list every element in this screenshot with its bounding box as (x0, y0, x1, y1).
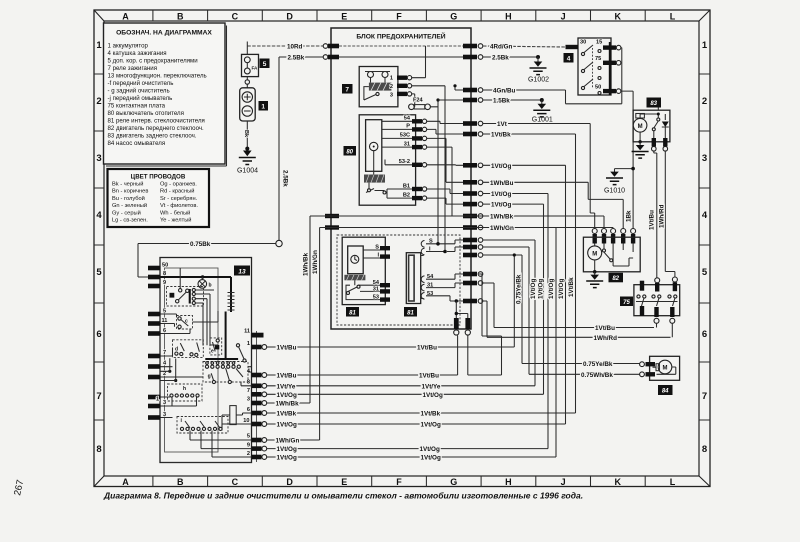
interior: contact near pin1 (239, 347, 244, 359)
connector drop pins below 81 (455, 299, 458, 302)
svg-text:-f передний очиститель: -f передний очиститель (108, 80, 174, 87)
svg-text:B: B (177, 477, 184, 487)
svg-text:54: 54 (373, 280, 380, 286)
svg-text:7: 7 (96, 391, 101, 402)
svg-text:E: E (341, 12, 347, 22)
svg-text:81 реле интерв. стеклоочистите: 81 реле интерв. стеклоочистителя (108, 118, 205, 125)
svg-text:J: J (561, 12, 566, 22)
svg-text:5: 5 (247, 434, 250, 440)
svg-text:1Vt/Bk: 1Vt/Bk (421, 411, 441, 418)
svg-text:4: 4 (96, 210, 102, 221)
wire 1Vt/Bk pin6 (267, 412, 576, 414)
svg-text:1Bk: 1Bk (626, 210, 633, 222)
svg-text:Lg - св-зелен.: Lg - св-зелен. (112, 218, 148, 224)
legend box (104, 23, 227, 166)
svg-text:Bk - черный: Bk - черный (112, 180, 143, 187)
svg-text:1Vt/Bu: 1Vt/Bu (277, 373, 297, 380)
svg-text:F: F (396, 477, 402, 487)
svg-text:1Vt/Og: 1Vt/Og (277, 392, 297, 399)
svg-text:Gy - серый: Gy - серый (112, 209, 141, 216)
svg-text:1.5Bk: 1.5Bk (493, 97, 510, 104)
svg-text:1Vt/Og: 1Vt/Og (491, 202, 511, 209)
svg-text:1Vt/Bu: 1Vt/Bu (595, 325, 615, 332)
relay 7 (359, 67, 398, 107)
ignition switch 4 (564, 38, 634, 229)
svg-text:c: c (185, 319, 188, 325)
svg-text:4Gn/Bu: 4Gn/Bu (493, 87, 516, 94)
column letters bottom (122, 477, 676, 487)
ground G1010 (604, 167, 635, 222)
interior: feed bus (161, 277, 232, 312)
83 bottom pins (652, 138, 656, 147)
frame column ticks bottom (153, 476, 645, 487)
svg-text:3: 3 (96, 153, 101, 164)
wire 1Vt/Og pin9 (267, 448, 548, 450)
svg-text:A: A (122, 477, 129, 487)
svg-text:1Vt/Bu: 1Vt/Bu (649, 210, 656, 230)
svg-text:1Vt/Og: 1Vt/Og (423, 392, 443, 399)
svg-text:3: 3 (163, 400, 166, 406)
svg-text:82: 82 (612, 276, 619, 282)
svg-text:1Wh/Bu: 1Wh/Bu (490, 180, 514, 187)
svg-text:1: 1 (247, 341, 250, 347)
socket pin wires to right edge (426, 240, 463, 244)
svg-text:9: 9 (247, 443, 250, 449)
washer pump 84 (581, 356, 680, 395)
wire 1Vt/Og pin2 (267, 228, 556, 458)
svg-text:1Vt/Og: 1Vt/Og (530, 279, 537, 299)
multifunction switch 13 (148, 258, 267, 463)
wire pin2 to vertical x445 (412, 86, 445, 252)
svg-text:H: H (505, 12, 512, 22)
interior: switch c (177, 316, 193, 330)
svg-text:2.5Bk: 2.5Bk (282, 170, 289, 187)
svg-text:1Wh/Gn: 1Wh/Gn (312, 250, 319, 274)
svg-text:h: h (183, 386, 186, 392)
svg-text:5: 5 (263, 61, 267, 68)
interior: switch d (173, 340, 204, 358)
svg-text:0.75Ye/Bk: 0.75Ye/Bk (583, 361, 613, 368)
svg-text:4: 4 (567, 55, 571, 62)
svg-text:G1004: G1004 (237, 168, 258, 175)
svg-text:7: 7 (247, 388, 250, 394)
svg-text:B: B (177, 12, 184, 22)
interior: switch e (210, 338, 222, 355)
wire 10Rd inside fuse box (339, 45, 463, 47)
ground G1001 (540, 98, 544, 102)
svg-text:8: 8 (247, 380, 250, 386)
wire wrap from 4Gn/Bu to pin15 (566, 48, 622, 104)
verticals 1Wh/Bk 1Wh/Gn down to switch 13 (310, 216, 320, 440)
svg-text:1Vt/Bk: 1Vt/Bk (568, 277, 575, 297)
relay 81 left (342, 237, 385, 304)
svg-text:M: M (638, 124, 643, 130)
svg-text:- g задний очиститель: - g задний очиститель (108, 88, 170, 95)
svg-text:1: 1 (96, 40, 102, 51)
ground G1004 (243, 151, 252, 157)
wire 4Gn/Bu (483, 89, 566, 91)
svg-text:50: 50 (595, 85, 601, 91)
svg-text:D: D (286, 12, 293, 22)
battery 1 (246, 77, 248, 88)
svg-text:30: 30 (580, 40, 586, 46)
wires pins to right exits (427, 121, 463, 123)
right pin labels (243, 329, 251, 458)
svg-text:ЦВЕТ ПРОВОДОВ: ЦВЕТ ПРОВОДОВ (131, 174, 186, 181)
interior: switch b (198, 280, 207, 289)
svg-text:1Vt/Bu: 1Vt/Bu (417, 345, 437, 352)
frame row ticks right (699, 74, 710, 420)
svg-text:8: 8 (702, 444, 707, 455)
row numbers right (702, 40, 708, 455)
svg-text:31: 31 (404, 141, 410, 147)
svg-text:1Vt/Og: 1Vt/Og (420, 446, 440, 453)
frame corner bevels (94, 10, 710, 487)
wire 2.5Bk inside fuse box (339, 56, 463, 58)
svg-text:81: 81 (407, 310, 414, 316)
svg-text:7: 7 (702, 391, 707, 402)
svg-text:1Vt/Bu: 1Vt/Bu (277, 345, 297, 352)
wire colour legend box (108, 169, 210, 227)
wire 1Vt/Og pin10 (267, 423, 566, 425)
svg-text:0.75Bk: 0.75Bk (190, 241, 211, 248)
wire F24 to vertical x438 (430, 100, 438, 244)
wire battery to ground (246, 121, 248, 152)
heater switch 80 (359, 115, 415, 205)
internal wires of 80 (374, 121, 412, 198)
svg-text:J: J (561, 477, 566, 487)
svg-text:1Vt/Og: 1Vt/Og (277, 422, 297, 429)
svg-text:C: C (232, 477, 239, 487)
interior: switch g (203, 362, 248, 383)
svg-text:B1: B1 (403, 183, 410, 189)
svg-text:P: P (406, 124, 410, 130)
svg-text:1Vt/Og: 1Vt/Og (491, 163, 511, 170)
wire 1Vt/Bk (483, 134, 576, 413)
fuse F24 (411, 94, 414, 107)
svg-text:75 контактная плата: 75 контактная плата (108, 103, 166, 110)
svg-text:6: 6 (247, 407, 250, 413)
svg-text:Wh - белый: Wh - белый (160, 209, 190, 216)
fuse 5 (246, 42, 248, 55)
svg-text:4Rd/Gn: 4Rd/Gn (490, 43, 513, 50)
wire 1Vt/Bu pin4 (267, 274, 502, 375)
left edge pads 10Rd 2.5Bk (323, 44, 328, 49)
svg-text:1Vt/Og: 1Vt/Og (537, 279, 544, 299)
svg-text:2: 2 (247, 451, 250, 457)
svg-text:5 доп. кор. с предохранителями: 5 доп. кор. с предохранителями (108, 58, 198, 65)
svg-text:Rd - красный: Rd - красный (160, 188, 194, 195)
frame row ticks left (94, 74, 104, 420)
ground of 82 (593, 270, 597, 274)
frame inner border (104, 21, 699, 476)
relay socket 81 right (406, 253, 420, 304)
svg-text:0.75Wh/Bk: 0.75Wh/Bk (581, 372, 613, 379)
right pads and circles (252, 333, 267, 460)
svg-text:7 реле зажигания: 7 реле зажигания (108, 65, 158, 72)
frame outer border (94, 10, 710, 487)
svg-text:1: 1 (702, 40, 708, 51)
svg-text:1Wh/Bk: 1Wh/Bk (490, 214, 514, 221)
wire 1.5Bk to G1001 (483, 99, 542, 101)
svg-text:84 насос омывателя: 84 насос омывателя (108, 140, 166, 147)
interior: thick bus down (205, 312, 238, 360)
svg-text:2.5Bk: 2.5Bk (288, 54, 305, 61)
svg-text:D: D (286, 477, 293, 487)
interior: contact column (189, 289, 191, 304)
svg-text:1Vt/Og: 1Vt/Og (558, 279, 565, 299)
interior: resistor (230, 406, 236, 425)
svg-text:Bn - коричнев: Bn - коричнев (112, 189, 148, 195)
svg-text:-j передний омыватель: -j передний омыватель (108, 95, 173, 102)
svg-text:10Rd: 10Rd (287, 43, 303, 50)
svg-text:M: M (663, 366, 668, 372)
svg-text:L: L (670, 12, 676, 22)
wire 4Rd/Gn (483, 46, 566, 47)
svg-text:13 многофункцион. переключател: 13 многофункцион. переключатель (108, 73, 207, 80)
svg-text:ОБОЗНАЧ. НА ДИАГРАММАХ: ОБОЗНАЧ. НА ДИАГРАММАХ (116, 30, 212, 37)
wire 1Vt/Og (483, 165, 566, 424)
wire pin1 feed from 10Rd (412, 46, 426, 78)
svg-text:50: 50 (162, 263, 168, 269)
svg-text:2: 2 (163, 371, 166, 377)
svg-text:E: E (341, 477, 347, 487)
svg-text:1Wh/Bk: 1Wh/Bk (276, 401, 300, 408)
svg-text:2: 2 (702, 96, 707, 107)
wire 1Vt/Og pin7 (267, 393, 544, 395)
row numbers left (96, 40, 102, 455)
svg-text:FA: FA (252, 66, 259, 71)
svg-text:11: 11 (162, 318, 168, 324)
svg-text:G: G (450, 477, 457, 487)
node connector circle (276, 240, 282, 246)
svg-text:1: 1 (156, 397, 159, 403)
ground G1002 (536, 55, 540, 59)
fan: horizontal wires from 13 right pins (267, 228, 576, 462)
interior: switch i (177, 417, 228, 434)
wire 1Wh/Gn pin5 (267, 439, 320, 441)
svg-text:4: 4 (702, 210, 708, 221)
svg-text:G1010: G1010 (604, 188, 625, 195)
svg-text:L: L (670, 477, 676, 487)
svg-text:1: 1 (390, 76, 393, 82)
ground of 83 (638, 140, 641, 143)
svg-text:1Wh/Rd: 1Wh/Rd (594, 335, 618, 342)
left edge pads 1Wh/Bk 1Wh/Gn (325, 214, 339, 218)
svg-text:2.5Bk: 2.5Bk (492, 54, 509, 61)
svg-text:Gn - зеленый: Gn - зеленый (112, 202, 147, 209)
svg-text:M: M (592, 252, 597, 258)
svg-text:84: 84 (662, 389, 669, 395)
svg-text:1Wh/Gn: 1Wh/Gn (490, 225, 514, 232)
wire 1Wh/Bu (483, 182, 623, 228)
svg-text:F24: F24 (413, 98, 424, 104)
svg-text:Vt - фиолетов.: Vt - фиолетов. (160, 203, 198, 209)
svg-text:3: 3 (702, 153, 707, 164)
svg-text:1Vt/Og: 1Vt/Og (277, 455, 297, 462)
wire 0.75Bk (138, 244, 276, 278)
frame column ticks top (153, 10, 645, 21)
svg-text:3: 3 (390, 93, 393, 99)
wire 1Vt/Ye pin8 (267, 385, 535, 387)
wire pin2 branch to 4Gn/Bu exit (455, 86, 463, 90)
svg-text:1Vt/Og: 1Vt/Og (491, 191, 511, 198)
svg-text:1: 1 (261, 103, 265, 110)
fuse box enclosure (331, 28, 471, 329)
interior: switch a (167, 287, 204, 307)
svg-text:53-2: 53-2 (399, 159, 410, 165)
svg-text:2: 2 (390, 84, 393, 90)
svg-text:C: C (232, 12, 239, 22)
svg-text:G1001: G1001 (532, 117, 553, 124)
fan wires from rail (483, 240, 535, 386)
svg-text:83 двигатель заднего стеклооч.: 83 двигатель заднего стеклооч. (108, 133, 197, 140)
svg-text:7: 7 (345, 86, 349, 93)
wire 1Vt/Og b (483, 194, 548, 449)
svg-text:1Vt/Ye: 1Vt/Ye (422, 383, 441, 390)
svg-text:3: 3 (247, 397, 250, 403)
svg-text:1 аккумулятор: 1 аккумулятор (108, 43, 149, 50)
svg-text:11: 11 (244, 329, 250, 335)
dashed box interval relays (337, 235, 460, 325)
fuse block right exit pads (463, 44, 483, 304)
svg-text:Диаграмма 8. Передние и задние: Диаграмма 8. Передние и задние очистител… (103, 491, 583, 501)
svg-text:1Vt/Bk: 1Vt/Bk (491, 132, 511, 139)
interior: switch h (168, 384, 203, 401)
svg-text:54: 54 (404, 116, 411, 122)
svg-text:75: 75 (595, 56, 601, 62)
svg-text:15: 15 (596, 40, 602, 46)
svg-text:0.75Ye/Bk: 0.75Ye/Bk (515, 274, 522, 304)
svg-text:1Vt/Bk: 1Vt/Bk (277, 411, 297, 418)
interior: wires from i to bottom pins (161, 424, 252, 463)
svg-text:80: 80 (346, 149, 353, 155)
left pads (148, 266, 161, 420)
svg-text:5: 5 (96, 267, 102, 278)
svg-text:G1002: G1002 (528, 77, 549, 84)
rotated bundle labels (515, 274, 575, 304)
svg-text:БЛОК ПРЕДОХРАНИТЕЛЕЙ: БЛОК ПРЕДОХРАНИТЕЛЕЙ (356, 32, 445, 41)
svg-text:1Wh/Bk: 1Wh/Bk (302, 252, 309, 276)
column letters top (122, 12, 676, 22)
wire 1Wh/Gn pass-through (320, 228, 613, 241)
svg-text:9: 9 (163, 280, 166, 286)
svg-text:A: A (122, 12, 129, 22)
svg-text:10: 10 (243, 418, 249, 424)
svg-text:K: K (615, 477, 622, 487)
svg-text:31: 31 (373, 287, 379, 293)
svg-text:Bk: Bk (243, 130, 249, 138)
svg-text:B2: B2 (403, 192, 410, 198)
svg-text:g: g (208, 374, 211, 380)
svg-text:Bu - голубой: Bu - голубой (112, 195, 145, 202)
svg-text:5: 5 (702, 267, 708, 278)
wire 1Wh/Bk pin3 (267, 402, 310, 404)
svg-text:81: 81 (349, 310, 356, 316)
wire 1Wh/Bk pass-through (310, 216, 604, 229)
wire 1Vt/Og c (483, 204, 544, 394)
svg-text:Ye - желтый: Ye - желтый (160, 217, 191, 224)
svg-text:1Vt/Og: 1Vt/Og (548, 279, 555, 299)
svg-text:8: 8 (96, 444, 101, 455)
svg-text:b: b (209, 283, 212, 289)
svg-text:Og - оранжев.: Og - оранжев. (160, 181, 197, 187)
left pin labels (156, 263, 168, 419)
rear wiper motor 83 (632, 98, 675, 278)
wire 2.5Bk (279, 56, 331, 58)
svg-text:K: K (615, 12, 622, 22)
svg-text:2: 2 (96, 96, 101, 107)
svg-text:1Vt/Bu: 1Vt/Bu (419, 373, 439, 380)
svg-text:F: F (396, 12, 402, 22)
svg-text:1Vt/Ye: 1Vt/Ye (277, 383, 296, 390)
front wiper motor 82 (583, 229, 640, 288)
wire 2.5Bk to G1002 (483, 56, 538, 58)
svg-text:1Vt: 1Vt (497, 121, 508, 128)
svg-text:7: 7 (163, 350, 166, 356)
svg-text:e: e (211, 349, 214, 355)
svg-text:83: 83 (650, 101, 657, 107)
svg-text:13: 13 (238, 268, 246, 275)
svg-text:1Vt/Og: 1Vt/Og (277, 446, 297, 453)
svg-text:6: 6 (702, 329, 707, 340)
wire pin 50 to G1010 line (621, 91, 633, 228)
wire 1Vt (483, 124, 595, 229)
svg-text:82 двигатель переднего стеклоо: 82 двигатель переднего стеклооч. (108, 125, 204, 132)
wire 10Rd (247, 45, 331, 47)
svg-text:1Wh/Gn: 1Wh/Gn (276, 438, 300, 445)
contact plate 75 (594, 277, 680, 342)
wire 1Vt/Bu pin1 (267, 255, 515, 347)
svg-text:53C: 53C (400, 133, 410, 139)
svg-text:6: 6 (96, 329, 101, 340)
svg-text:4 катушка зажигания: 4 катушка зажигания (108, 50, 167, 57)
svg-text:H: H (505, 477, 512, 487)
svg-text:75: 75 (623, 300, 630, 306)
svg-text:1Vt/Og: 1Vt/Og (421, 422, 441, 429)
svg-text:G: G (450, 12, 457, 22)
wire vertical 2.5Bk (278, 57, 280, 244)
75 bottom wires (657, 323, 673, 337)
svg-text:80 выключатель отопителя: 80 выключатель отопителя (108, 110, 184, 117)
svg-text:1Wh/Rd: 1Wh/Rd (658, 204, 665, 228)
svg-text:S: S (375, 245, 379, 251)
svg-text:Sr - серебрян.: Sr - серебрян. (160, 196, 198, 202)
svg-text:1Vt/Og: 1Vt/Og (421, 455, 441, 462)
wires 1Vt/Bu 1Wh/Rd down to plate 75 (654, 151, 675, 278)
svg-text:53: 53 (373, 295, 379, 301)
